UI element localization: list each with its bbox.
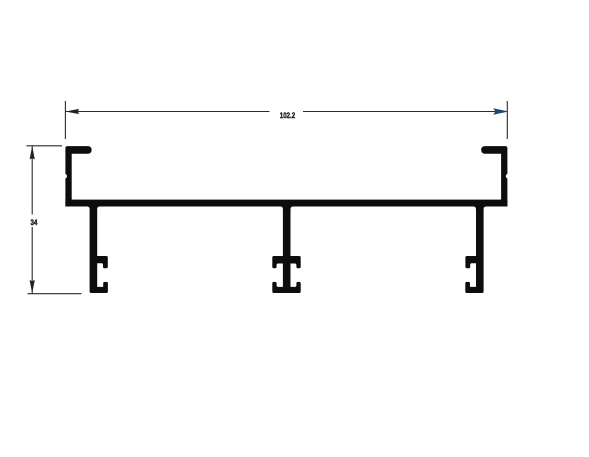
notch on right wall edge — [506, 174, 511, 179]
left dimension arrow down — [30, 280, 35, 294]
notch on left wall edge — [62, 174, 67, 179]
svg-text:102.2: 102.2 — [280, 111, 296, 120]
profile: fillet middle leg to rail — [280, 207, 283, 210]
profile: fillet right leg to rail — [484, 207, 487, 210]
profile: base rail — [65, 200, 507, 207]
top dimension arrow right (blue) — [493, 108, 508, 115]
top dimension line right segment — [303, 111, 507, 113]
top dimension arrow left — [66, 109, 80, 114]
top dimension line left segment — [65, 111, 269, 113]
left dimension arrow up — [30, 146, 35, 160]
profile: fillet left leg to rail — [87, 207, 90, 210]
profile: left leg with hooked foot (opens right) — [90, 207, 108, 294]
left dimension extension line top — [27, 145, 63, 147]
profile: fillet right wall to rail — [499, 200, 501, 202]
profile: fillet left wall to rail — [72, 200, 74, 202]
top dimension extension line right — [506, 101, 508, 139]
profile: right end wall with top flange and notch — [481, 146, 507, 206]
profile: middle leg with double-hook foot — [272, 207, 300, 294]
left dimension line upper segment — [31, 146, 33, 215]
top dimension extension line left — [64, 101, 66, 139]
svg-text:34: 34 — [31, 218, 38, 227]
profile: left end wall with top flange and notch — [65, 146, 91, 206]
profile: right leg with hooked foot (opens left) — [465, 207, 483, 294]
left dimension line lower segment — [31, 227, 33, 294]
left dimension extension line bottom — [28, 293, 82, 295]
